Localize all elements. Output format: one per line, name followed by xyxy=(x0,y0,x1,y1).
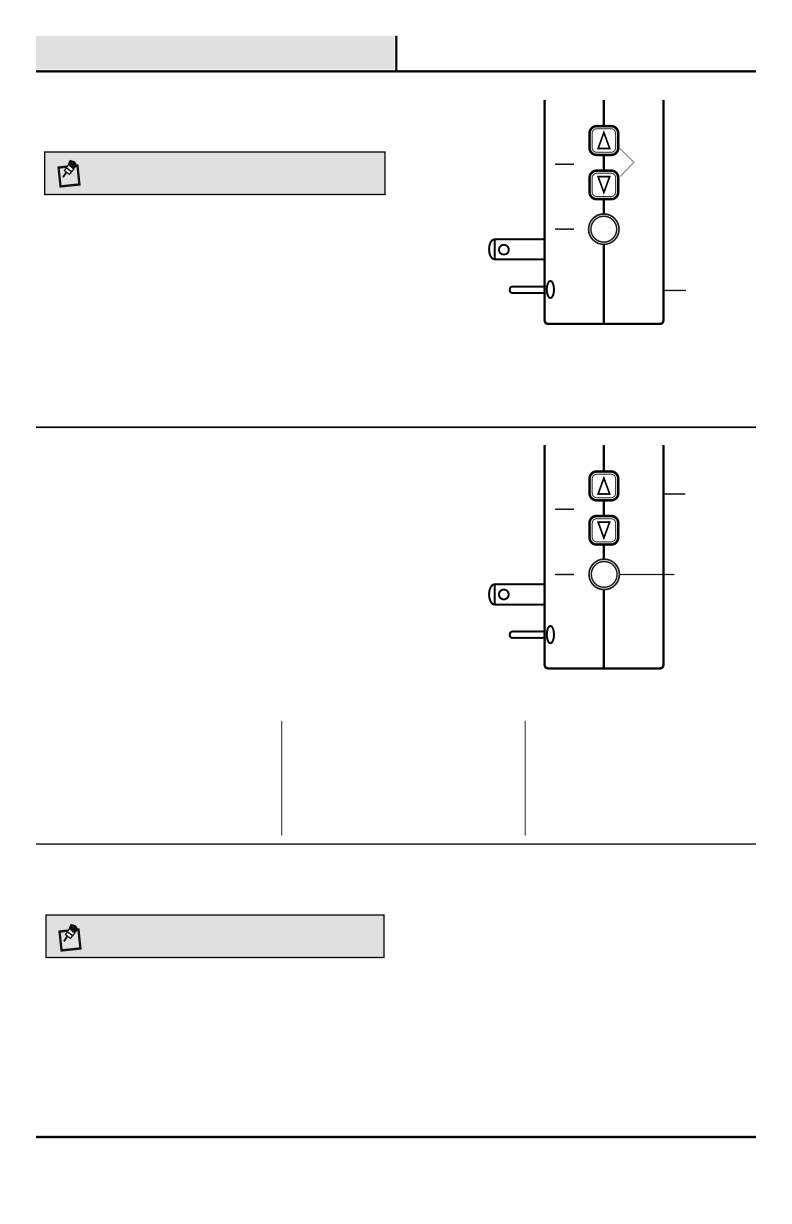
device center seam line xyxy=(603,100,605,324)
callout dash (left, between buttons) xyxy=(555,163,574,165)
page footer rule xyxy=(36,1136,756,1138)
header title bar (gray) xyxy=(36,36,394,70)
note icon 2 (pinned note) xyxy=(60,924,81,950)
round button xyxy=(589,214,619,244)
header horizontal rule xyxy=(36,70,756,72)
wide plug blade with hole 2 xyxy=(489,584,545,604)
note box 2 xyxy=(46,915,384,958)
note box 1 xyxy=(45,152,385,195)
callout dash (left, between buttons 2) xyxy=(555,508,574,510)
header divider vertical line xyxy=(395,36,397,73)
device center seam line 2 xyxy=(603,445,605,668)
device body outline (open top, rounded bottom corners) xyxy=(545,100,664,324)
section divider rule (mid page) xyxy=(36,426,756,428)
device body outline 2 xyxy=(545,445,664,668)
table bottom rule xyxy=(36,843,756,845)
table column line (left) xyxy=(281,721,283,836)
table column line (right) xyxy=(524,721,526,836)
callout dash (left of round button 2) xyxy=(555,574,574,576)
down button 2 xyxy=(590,516,619,545)
callout dash (left of round button) xyxy=(555,228,574,230)
blade base ellipse xyxy=(547,281,554,298)
up button xyxy=(590,126,619,155)
note icon 1 (pinned note) xyxy=(59,160,80,186)
down button xyxy=(590,171,619,200)
wide plug blade with hole xyxy=(489,239,545,259)
callout dash (right side of body) xyxy=(664,289,687,291)
callout dash (right of body 2, at up button) xyxy=(664,493,686,495)
narrow plug blade 2 xyxy=(510,632,546,638)
up button 2 xyxy=(590,472,619,501)
blade base ellipse 2 xyxy=(547,626,554,643)
round button 2 xyxy=(589,559,619,589)
chevron pointer (right of up/down buttons) xyxy=(620,148,634,176)
callout line from round button 2 (long, to the right) xyxy=(620,574,675,576)
narrow plug blade xyxy=(510,287,546,293)
